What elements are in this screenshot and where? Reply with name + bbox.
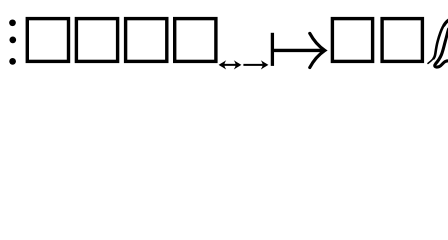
left-right arrow right head <box>234 60 242 69</box>
right arrow shaft <box>243 64 262 66</box>
missing-glyph box 1 <box>27 19 68 62</box>
mapsto vertical bar <box>271 33 274 66</box>
script ell ascender stroke <box>434 20 448 59</box>
script ell top thickening <box>444 20 448 25</box>
missing-glyph box 2 <box>76 19 117 62</box>
mapsto shaft <box>272 49 323 52</box>
script ell entry hook <box>428 58 434 63</box>
left-right arrow shaft <box>223 64 237 66</box>
missing-glyph box 5 <box>332 19 372 62</box>
missing-glyph box 4 <box>175 19 216 62</box>
script ell descender and loop stroke <box>435 29 448 67</box>
vertical ellipsis dot 1 <box>9 19 16 26</box>
vertical ellipsis dot 2 <box>9 37 16 44</box>
vertical ellipsis dot 3 <box>9 58 16 65</box>
left-right arrow left head <box>219 60 227 69</box>
mapsto arrow head <box>310 33 325 67</box>
right arrow head <box>261 60 269 69</box>
missing-glyph box 3 <box>126 19 167 62</box>
missing-glyph box 6 <box>382 19 422 62</box>
